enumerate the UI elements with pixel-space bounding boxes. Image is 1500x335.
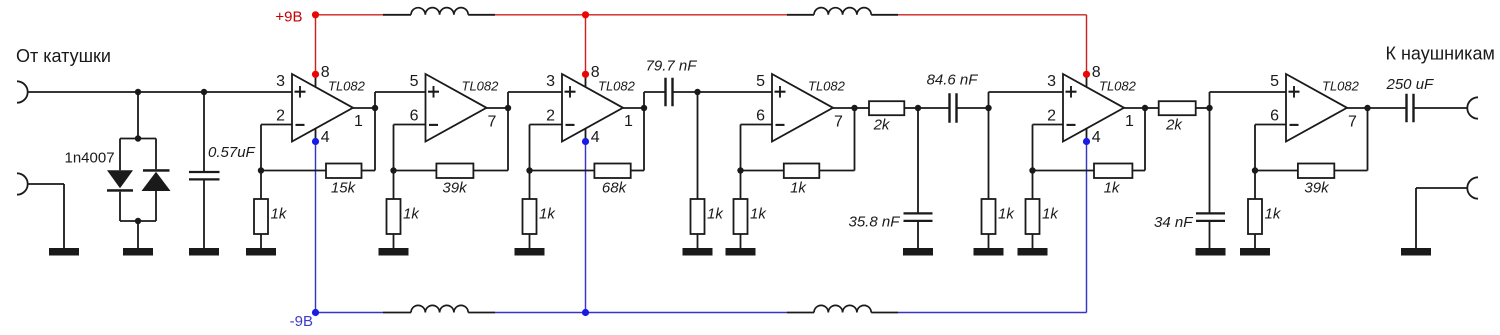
svg-text:6: 6 <box>410 108 419 125</box>
svg-text:TL082: TL082 <box>1099 79 1137 94</box>
svg-text:1k: 1k <box>403 206 420 223</box>
svg-text:8: 8 <box>591 64 600 81</box>
svg-text:7: 7 <box>1348 114 1357 131</box>
svg-text:TL082: TL082 <box>462 79 500 94</box>
svg-text:35.8 nF: 35.8 nF <box>849 214 901 231</box>
svg-text:2k: 2k <box>1165 117 1183 134</box>
svg-text:79.7 nF: 79.7 nF <box>646 58 698 75</box>
svg-text:15k: 15k <box>331 180 357 197</box>
svg-text:1k: 1k <box>539 206 556 223</box>
svg-text:8: 8 <box>321 64 330 81</box>
svg-text:TL082: TL082 <box>328 79 366 94</box>
svg-text:TL082: TL082 <box>1322 79 1360 94</box>
svg-text:3: 3 <box>1047 73 1056 90</box>
svg-text:1k: 1k <box>750 206 767 223</box>
svg-text:250 uF: 250 uF <box>1386 76 1435 93</box>
svg-text:4: 4 <box>321 129 330 146</box>
svg-text:68k: 68k <box>602 180 628 197</box>
svg-text:2k: 2k <box>873 117 891 134</box>
svg-text:1k: 1k <box>1265 206 1282 223</box>
svg-text:+9В: +9В <box>275 9 302 26</box>
svg-text:84.6 nF: 84.6 nF <box>927 72 979 89</box>
svg-text:2: 2 <box>546 108 555 125</box>
svg-text:2: 2 <box>276 108 285 125</box>
svg-text:1: 1 <box>624 113 633 130</box>
svg-text:К наушникам: К наушникам <box>1386 43 1495 63</box>
svg-text:-9В: -9В <box>290 313 313 330</box>
svg-text:39k: 39k <box>442 180 468 197</box>
svg-text:1k: 1k <box>1042 206 1059 223</box>
svg-text:TL082: TL082 <box>598 79 636 94</box>
svg-text:4: 4 <box>1092 129 1101 146</box>
svg-text:1k: 1k <box>998 206 1015 223</box>
svg-text:34 nF: 34 nF <box>1154 214 1193 231</box>
svg-text:3: 3 <box>276 73 285 90</box>
svg-text:TL082: TL082 <box>808 79 846 94</box>
svg-text:1k: 1k <box>271 206 288 223</box>
svg-text:39k: 39k <box>1304 180 1330 197</box>
svg-text:1n4007: 1n4007 <box>65 150 115 167</box>
svg-text:1k: 1k <box>1104 180 1121 197</box>
svg-text:7: 7 <box>488 114 497 131</box>
svg-text:1k: 1k <box>790 180 807 197</box>
svg-text:1: 1 <box>1125 113 1134 130</box>
svg-text:7: 7 <box>834 114 843 131</box>
svg-text:3: 3 <box>546 73 555 90</box>
svg-text:5: 5 <box>756 73 765 90</box>
svg-text:2: 2 <box>1047 108 1056 125</box>
svg-text:0.57uF: 0.57uF <box>208 144 256 161</box>
svg-text:4: 4 <box>591 129 600 146</box>
svg-text:1k: 1k <box>707 206 724 223</box>
svg-text:От катушки: От катушки <box>16 46 111 66</box>
svg-text:5: 5 <box>1270 73 1279 90</box>
svg-text:6: 6 <box>1270 108 1279 125</box>
svg-text:5: 5 <box>410 73 419 90</box>
svg-text:8: 8 <box>1092 64 1101 81</box>
svg-text:6: 6 <box>756 108 765 125</box>
svg-text:1: 1 <box>354 113 363 130</box>
